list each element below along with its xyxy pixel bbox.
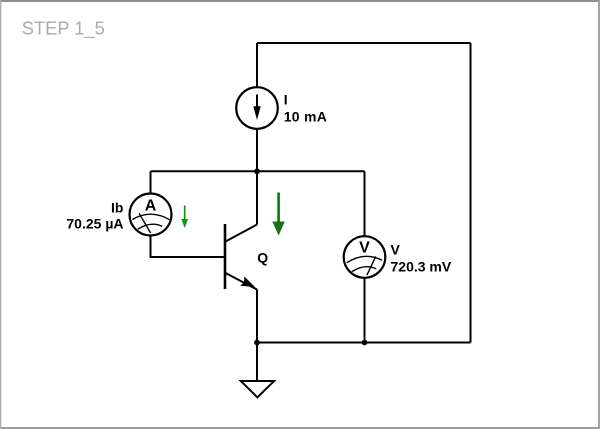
svg-text:V: V <box>391 241 401 257</box>
node junction dot V- <box>362 340 368 346</box>
wire current source bottom lead <box>256 129 258 171</box>
wire collector vertical <box>256 171 258 224</box>
current arrow large (collector current) <box>272 193 284 236</box>
wire ground lead <box>256 343 258 382</box>
wire ammeter bottom to base <box>151 236 226 258</box>
transistor Q (NPN) <box>225 224 257 290</box>
wire emitter vertical <box>256 290 258 343</box>
node junction dot E/ground <box>254 340 260 346</box>
ammeter Ib <box>130 194 172 236</box>
svg-text:I: I <box>284 91 288 107</box>
svg-text:A: A <box>145 198 157 215</box>
svg-text:Q: Q <box>257 249 268 265</box>
node junction dot B <box>254 168 260 174</box>
svg-text:V: V <box>359 240 370 257</box>
wire current source top lead <box>256 43 258 87</box>
svg-text:Ib: Ib <box>111 200 123 216</box>
svg-text:720.3 mV: 720.3 mV <box>391 258 452 274</box>
wire voltmeter top lead <box>364 171 366 236</box>
svg-text:70.25 µA: 70.25 µA <box>66 216 123 232</box>
wire ammeter top lead <box>150 171 152 193</box>
current arrow small (base current) <box>181 206 188 229</box>
wire node-B horizontal rail <box>151 170 365 172</box>
ground <box>241 381 274 397</box>
wire right vertical <box>470 43 472 343</box>
wire top horizontal <box>257 42 471 44</box>
svg-text:STEP 1_5: STEP 1_5 <box>22 18 105 40</box>
wire bottom horizontal <box>257 342 471 344</box>
current source I <box>236 87 278 129</box>
svg-text:10 mA: 10 mA <box>284 108 328 124</box>
wire voltmeter bottom lead <box>364 278 366 343</box>
voltmeter V <box>344 236 386 278</box>
